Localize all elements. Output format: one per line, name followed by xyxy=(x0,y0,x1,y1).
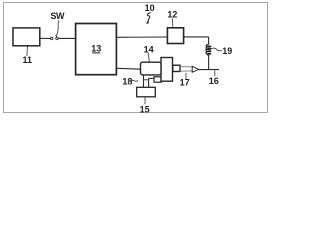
svg-text:18: 18 xyxy=(122,77,132,87)
svg-text:19: 19 xyxy=(222,46,232,56)
svg-text:SW: SW xyxy=(50,11,65,21)
svg-text:11: 11 xyxy=(22,55,32,65)
svg-text:13: 13 xyxy=(91,43,101,53)
svg-text:17: 17 xyxy=(180,78,190,88)
svg-text:16: 16 xyxy=(209,76,219,86)
svg-text:12: 12 xyxy=(167,10,177,20)
svg-text:10: 10 xyxy=(145,3,155,13)
svg-text:15: 15 xyxy=(140,104,150,114)
svg-text:14: 14 xyxy=(144,44,154,54)
